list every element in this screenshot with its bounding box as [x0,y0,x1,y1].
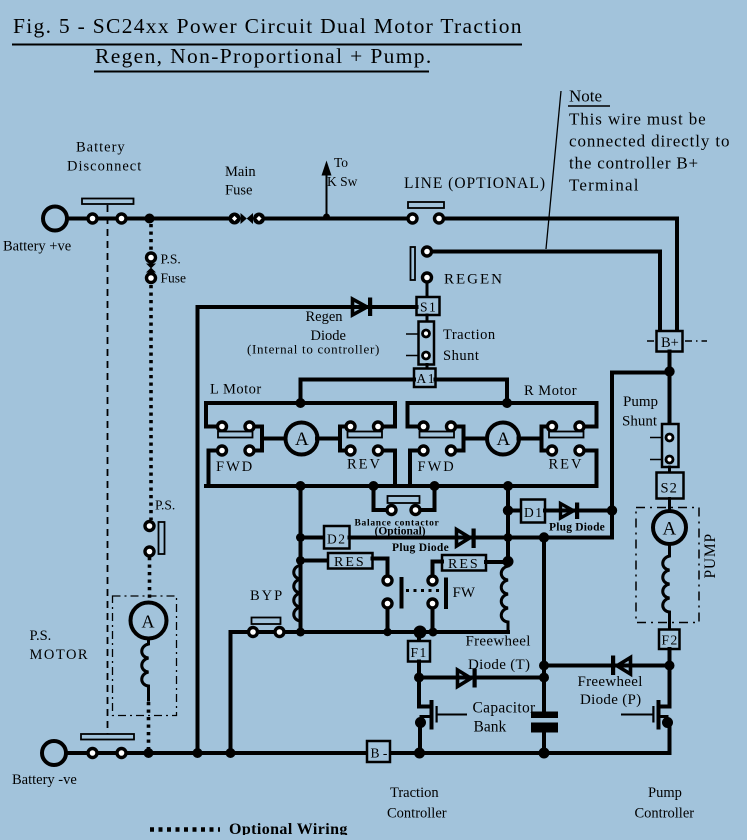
svg-text:Terminal: Terminal [569,176,640,195]
svg-text:L Motor: L Motor [210,382,262,398]
svg-text:S2: S2 [661,481,678,497]
svg-text:Battery -ve: Battery -ve [12,772,77,788]
svg-text:Fig. 5 - SC24xx Power Circuit: Fig. 5 - SC24xx Power Circuit Dual Motor… [13,14,523,38]
svg-text:A1: A1 [417,371,437,386]
svg-text:RES: RES [448,557,480,572]
svg-text:MOTOR: MOTOR [30,647,90,663]
svg-text:Plug Diode: Plug Diode [549,522,605,534]
svg-text:D2: D2 [327,532,347,547]
svg-text:Note: Note [569,87,602,106]
svg-text:Controller: Controller [635,806,695,822]
svg-text:D1: D1 [524,505,544,520]
svg-text:Freewheel: Freewheel [466,634,531,650]
svg-text:Battery +ve: Battery +ve [3,239,71,255]
svg-text:Plug Diode: Plug Diode [392,542,449,554]
svg-text:R Motor: R Motor [524,383,577,399]
svg-text:Battery: Battery [76,140,126,156]
svg-text:Fuse: Fuse [161,271,187,286]
svg-text:A: A [142,612,155,632]
svg-text:BYP: BYP [250,588,284,604]
svg-text:RES: RES [334,555,366,570]
svg-text:Shunt: Shunt [622,414,658,430]
svg-text:Traction: Traction [390,785,439,801]
svg-text:REGEN: REGEN [444,272,504,288]
svg-text:F1: F1 [411,645,428,660]
svg-text:A: A [663,519,677,540]
svg-text:Diode (P): Diode (P) [580,692,641,708]
svg-text:P.S.: P.S. [155,498,175,513]
svg-text:connected directly to: connected directly to [569,132,730,151]
svg-text:Disconnect: Disconnect [67,159,142,175]
svg-text:P.S.: P.S. [161,252,181,267]
svg-text:B+: B+ [661,335,679,351]
svg-text:Traction: Traction [443,327,496,343]
svg-text:Optional Wiring: Optional Wiring [229,821,348,835]
svg-text:F2: F2 [662,633,679,648]
svg-text:Bank: Bank [474,719,507,736]
svg-text:Capacitor: Capacitor [473,700,536,717]
svg-text:This wire must be: This wire must be [569,110,707,129]
svg-text:Main: Main [225,164,256,180]
svg-text:Pump: Pump [623,394,658,410]
svg-text:Pump: Pump [648,785,682,801]
svg-text:(Internal to controller): (Internal to controller) [247,342,380,357]
svg-text:Regen, Non-Proportional + Pump: Regen, Non-Proportional + Pump. [95,44,433,68]
svg-text:LINE (OPTIONAL): LINE (OPTIONAL) [404,175,546,192]
svg-text:P.S.: P.S. [30,628,52,644]
svg-text:PUMP: PUMP [702,533,719,578]
svg-text:To: To [334,155,348,170]
svg-text:K Sw: K Sw [327,174,358,189]
svg-text:Shunt: Shunt [443,348,479,364]
svg-text:the controller B+: the controller B+ [569,154,699,173]
svg-text:Controller: Controller [387,806,447,822]
svg-text:Freewheel: Freewheel [578,674,643,690]
svg-text:FW: FW [453,585,476,601]
svg-text:B -: B - [371,746,388,761]
svg-text:Diode (T): Diode (T) [468,657,530,673]
svg-text:Regen: Regen [306,309,344,325]
svg-text:S1: S1 [420,300,437,315]
svg-text:Fuse: Fuse [225,183,252,199]
